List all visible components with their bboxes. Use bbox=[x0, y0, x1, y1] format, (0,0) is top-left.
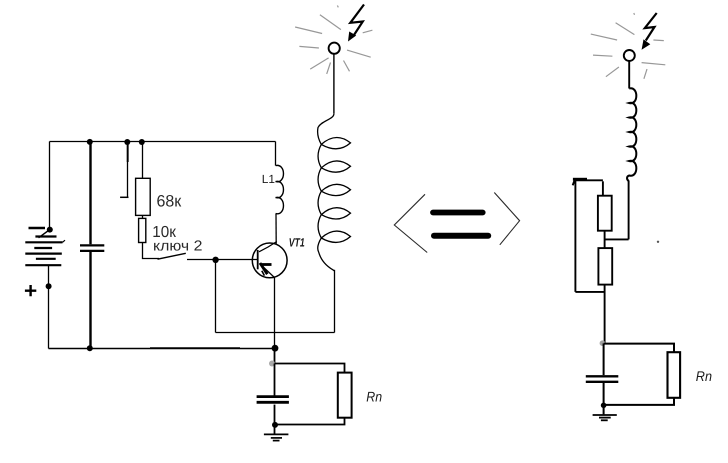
resistor Rn body right bbox=[668, 352, 681, 398]
spark bolt left bbox=[350, 5, 364, 37]
node C2 bottom bbox=[272, 422, 278, 428]
wire left vertical to battery bbox=[49, 142, 51, 229]
equivalence bar 1 bbox=[433, 210, 483, 216]
wire feedback horizontal bbox=[216, 332, 335, 334]
equivalence right angle bbox=[494, 193, 519, 245]
wire R1 to R2 bbox=[142, 215, 144, 218]
transistor VT1 base bar bbox=[257, 250, 259, 269]
terminal stub T-bar bbox=[120, 196, 128, 198]
transistor VT1 circle bbox=[252, 243, 287, 278]
capacitor C2 top lead bbox=[274, 364, 276, 397]
wire base feedback down bbox=[215, 260, 217, 333]
equivalence left angle bbox=[394, 194, 427, 252]
inductor L1 lead bbox=[275, 142, 277, 166]
ground left bbox=[264, 434, 289, 440]
wire emitter node to load bbox=[274, 348, 276, 363]
resistor R3 body bbox=[598, 196, 612, 231]
wire Rn right bottom bbox=[604, 398, 674, 405]
svg-text:ключ 2: ключ 2 bbox=[153, 239, 202, 255]
resistor Rn body left bbox=[338, 373, 352, 418]
transistor VT1 collector inner line bbox=[259, 242, 277, 252]
battery GB1 plates bbox=[25, 237, 62, 266]
wire to R3 top bbox=[602, 181, 604, 195]
transistor VT1 emitter arrow bbox=[262, 263, 272, 266]
wire antenna lead right bbox=[628, 61, 630, 89]
wire top horizontal right circuit bbox=[574, 179, 603, 181]
equivalence bar 2 bbox=[434, 233, 488, 239]
svg-text:L1: L1 bbox=[262, 172, 275, 186]
capacitor C1 top lead bbox=[89, 142, 91, 245]
wire bottom horizontal right circuit bbox=[575, 291, 604, 293]
wire antenna lead left bbox=[333, 54, 335, 114]
capacitor C3 bottom lead bbox=[603, 383, 605, 414]
node rail-R1 bbox=[139, 139, 145, 145]
wire left vertical right circuit bbox=[574, 180, 576, 292]
wire R3 bottom to junction bbox=[604, 231, 606, 248]
battery overdraw stroke bbox=[39, 231, 49, 238]
antenna terminal right bbox=[624, 50, 635, 61]
wire to Rn right bbox=[604, 344, 674, 353]
node battery plus terminal bbox=[46, 283, 52, 289]
resistor R4 body bbox=[598, 248, 612, 285]
wire switch contact to base bbox=[187, 259, 258, 261]
capacitor C1 bottom lead bbox=[89, 252, 91, 349]
spark rays left bbox=[295, 6, 372, 74]
wire stub with open end bbox=[127, 142, 129, 197]
inductor L2 big coil bbox=[318, 114, 351, 271]
capacitor C1 plates bbox=[80, 244, 104, 246]
wire R2 to switch pole bbox=[143, 243, 160, 259]
antenna terminal left bbox=[329, 43, 340, 54]
wire bottom rail left circuit bbox=[49, 347, 276, 350]
wire coil bottom right bbox=[628, 181, 630, 240]
node rail-C1 bottom bbox=[87, 345, 93, 351]
inductor L3 right coil bbox=[627, 88, 636, 181]
wire rail to R1 bbox=[142, 142, 144, 178]
wire coil to resistor junction bbox=[605, 238, 629, 240]
capacitor C3 top lead bbox=[603, 343, 605, 375]
node stub tap bbox=[124, 139, 130, 145]
svg-text:VT1: VT1 bbox=[289, 236, 305, 250]
battery GB1 plus label bbox=[25, 285, 36, 296]
transistor VT1 emitter bbox=[260, 264, 275, 349]
wire L1 to collector bbox=[275, 214, 277, 244]
spark rays right bbox=[591, 13, 666, 79]
ground right bbox=[593, 415, 617, 420]
stray dot bbox=[657, 241, 659, 243]
svg-text:68к: 68к bbox=[157, 192, 182, 210]
capacitor C2 bottom lead bbox=[274, 405, 276, 434]
node battery minus terminal bbox=[47, 227, 53, 233]
spark bolt right bbox=[645, 13, 657, 41]
wire top rail left circuit bbox=[50, 141, 276, 143]
node gray junction right bbox=[600, 340, 606, 346]
node C3 bottom bbox=[601, 403, 607, 409]
node gray junction bbox=[269, 361, 275, 367]
inductor L1 humps bbox=[276, 165, 284, 213]
wire to Rn top bbox=[275, 364, 345, 373]
battery GB1 minus label bbox=[29, 227, 46, 230]
switch SA1 blade bbox=[158, 253, 186, 259]
node emitter-rail bbox=[272, 345, 279, 352]
wire battery bottom lead bbox=[48, 265, 50, 348]
svg-text:Rn: Rn bbox=[696, 368, 712, 384]
svg-text:Rn: Rn bbox=[366, 389, 382, 405]
wire top-left thick mark bbox=[573, 178, 587, 181]
node base junction bbox=[212, 257, 218, 263]
node rail-C1 bbox=[87, 139, 93, 145]
wire Rn bottom bbox=[275, 418, 345, 425]
wire feedback up to coil bottom bbox=[334, 270, 336, 333]
capacitor C3 plates bbox=[586, 375, 619, 377]
capacitor C2 plates bbox=[257, 395, 289, 398]
resistor R2 10k body bbox=[139, 218, 146, 242]
resistor R1 68k body bbox=[136, 178, 151, 215]
wire R4 bottom down bbox=[604, 285, 606, 344]
